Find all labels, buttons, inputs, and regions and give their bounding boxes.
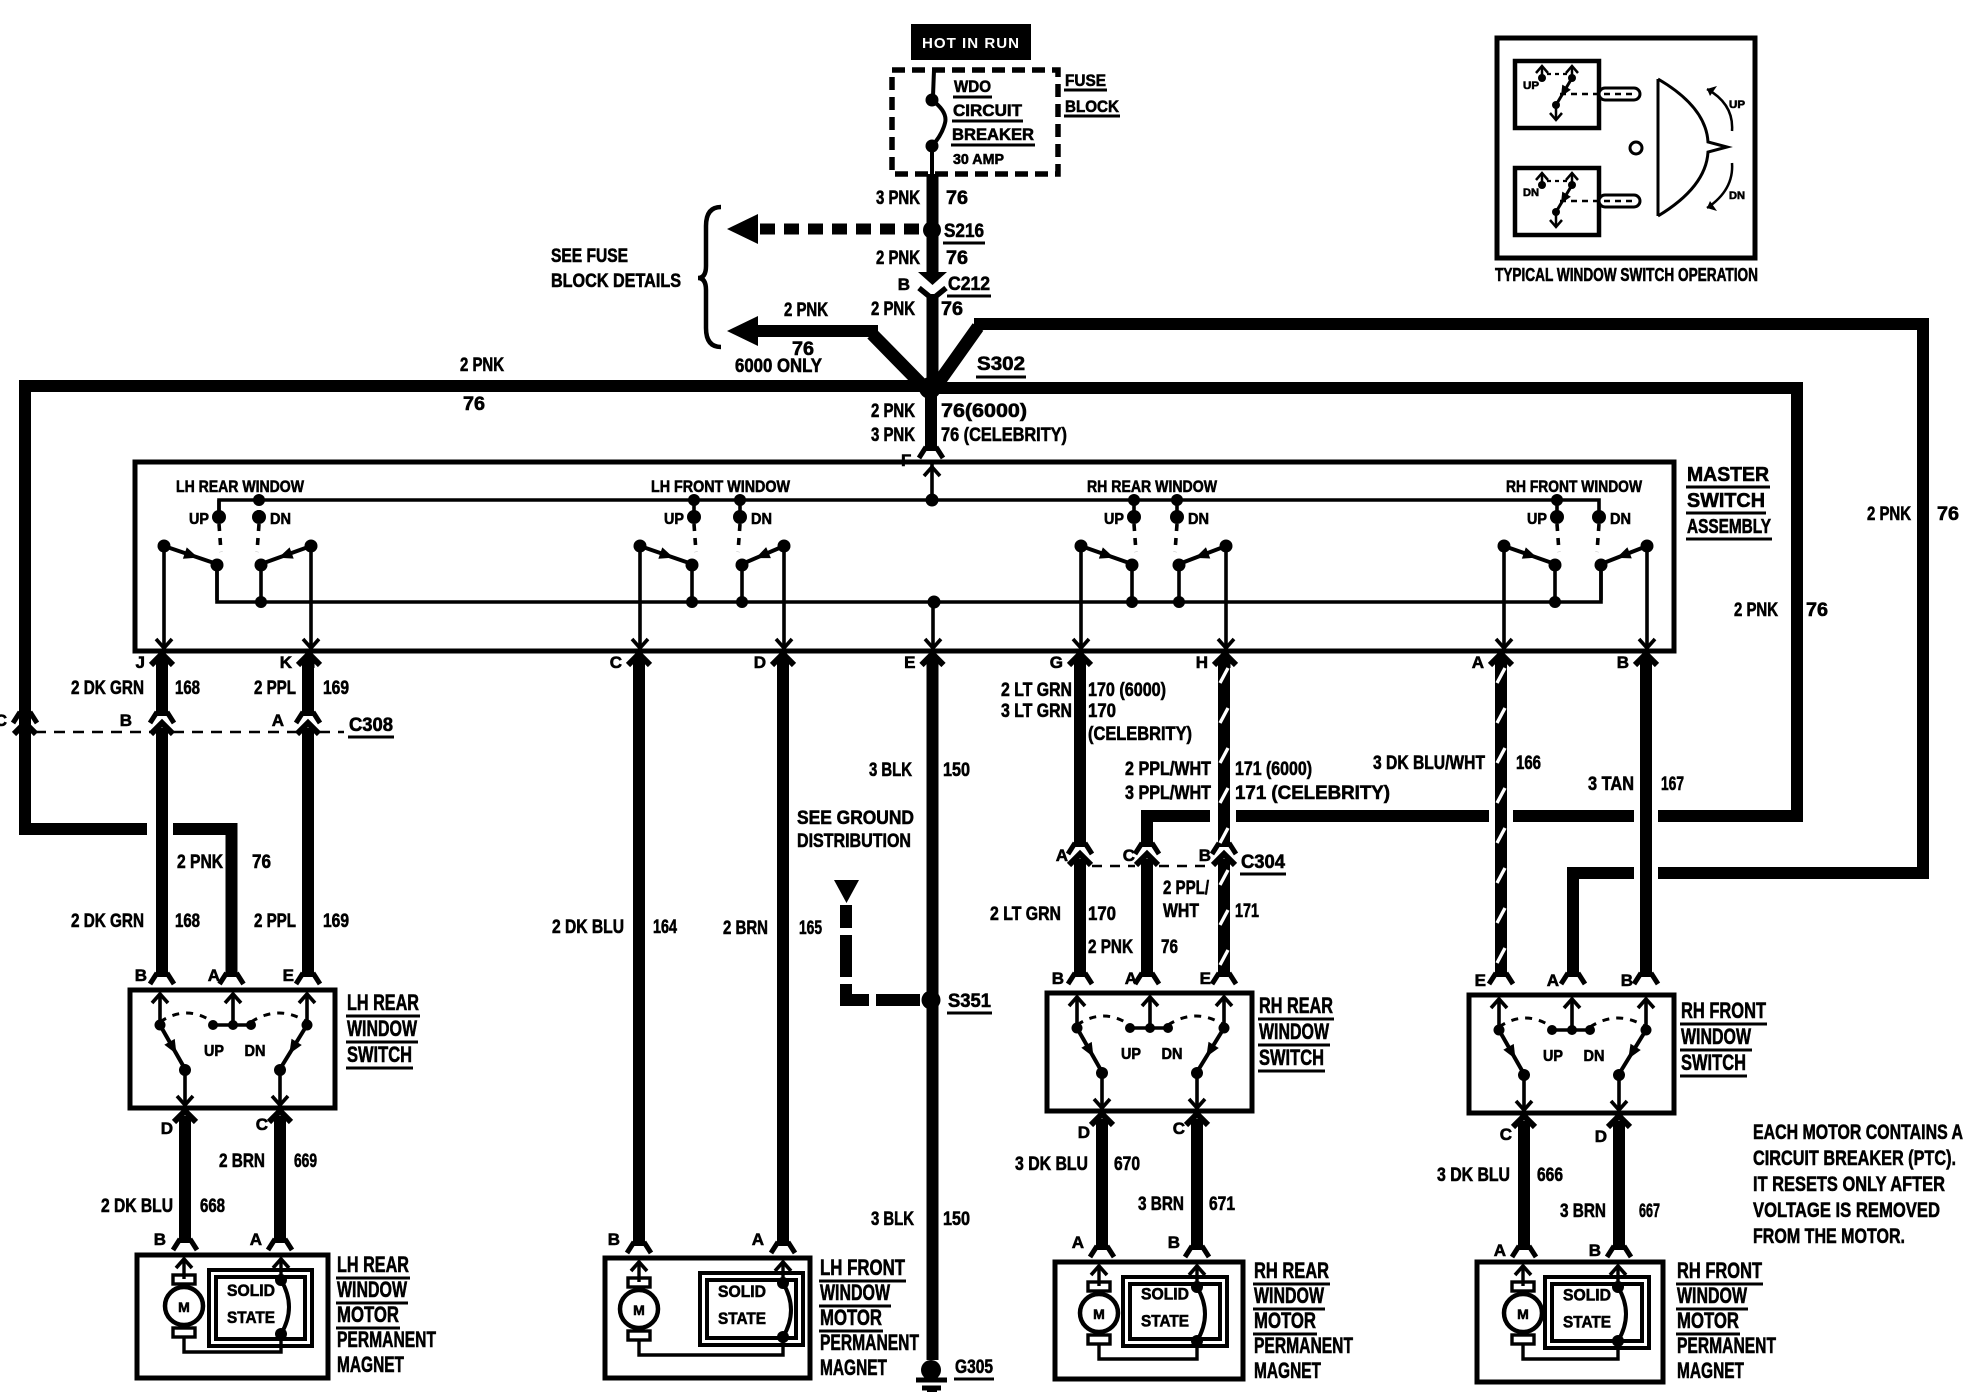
svg-text:E: E	[1475, 971, 1486, 990]
svg-text:2 LT GRN: 2 LT GRN	[1001, 680, 1072, 701]
svg-text:170 (6000): 170 (6000)	[1088, 680, 1166, 701]
svg-text:WINDOW: WINDOW	[1677, 1283, 1747, 1308]
svg-text:3 PPL/WHT: 3 PPL/WHT	[1125, 783, 1211, 804]
connector C308	[0, 711, 394, 737]
svg-text:76(6000): 76(6000)	[941, 401, 1027, 422]
wire 2 DK BLU 164	[552, 658, 677, 1253]
svg-text:76 (CELEBRITY): 76 (CELEBRITY)	[941, 425, 1067, 446]
wire 3 BRN 667	[1560, 1121, 1660, 1260]
svg-text:FROM THE MOTOR.: FROM THE MOTOR.	[1753, 1224, 1905, 1248]
svg-text:A: A	[1494, 1241, 1506, 1260]
svg-text:C: C	[1123, 846, 1135, 865]
svg-text:169: 169	[323, 911, 349, 932]
wire 3 DK BLU 666	[1437, 1121, 1563, 1260]
wire 3 PNK 76 breaker to S216	[876, 174, 968, 224]
wire 2 PNK feed to RH rear switch	[930, 388, 1797, 854]
svg-text:EACH MOTOR CONTAINS A: EACH MOTOR CONTAINS A	[1753, 1120, 1963, 1144]
svg-text:CIRCUIT BREAKER (PTC).: CIRCUIT BREAKER (PTC).	[1753, 1146, 1956, 1170]
svg-text:3 TAN: 3 TAN	[1588, 774, 1634, 795]
svg-text:RH REAR WINDOW: RH REAR WINDOW	[1087, 477, 1218, 496]
svg-text:170: 170	[1088, 904, 1116, 925]
svg-text:BLOCK DETAILS: BLOCK DETAILS	[551, 271, 681, 292]
svg-text:STATE: STATE	[1141, 1312, 1189, 1331]
svg-text:76: 76	[946, 188, 968, 209]
LH front window motor internal circuit breaker	[775, 1262, 791, 1343]
svg-text:C308: C308	[349, 715, 393, 736]
svg-text:3 LT GRN: 3 LT GRN	[1001, 701, 1072, 722]
LH rear window motor box	[137, 1255, 328, 1378]
wire 2 DK GRN 168 lower	[71, 728, 200, 984]
svg-text:MOTOR: MOTOR	[337, 1302, 399, 1327]
svg-text:171: 171	[1235, 901, 1259, 922]
wire PPL/WHT 171 lower (hatched)	[1163, 859, 1259, 984]
labels 2 PNK 76 right feed 2	[1867, 504, 1959, 525]
svg-text:STATE: STATE	[1563, 1313, 1611, 1332]
svg-text:WHT: WHT	[1163, 901, 1199, 922]
svg-text:666: 666	[1537, 1165, 1563, 1186]
node S351	[922, 991, 993, 1014]
svg-text:2 PPL/: 2 PPL/	[1163, 878, 1210, 899]
wire 2 LT GRN 170 upper	[1001, 658, 1192, 854]
LH REAR WINDOW SWITCH label	[346, 990, 420, 1068]
connector C212	[898, 272, 991, 299]
wire 2 DK BLU 668	[101, 1116, 225, 1250]
svg-text:2 PPL: 2 PPL	[254, 678, 296, 699]
svg-text:FUSE: FUSE	[1065, 71, 1106, 90]
connector C304	[1056, 846, 1286, 874]
svg-text:DN: DN	[1584, 1048, 1605, 1065]
svg-text:169: 169	[323, 678, 349, 699]
RH rear switch bottom terminals D C	[1078, 1114, 1208, 1142]
svg-text:CIRCUIT: CIRCUIT	[953, 101, 1023, 120]
LH rear window motor return wire	[184, 1334, 281, 1352]
master terminal J	[136, 653, 173, 672]
svg-text:UP: UP	[1121, 1046, 1141, 1063]
svg-text:LH FRONT: LH FRONT	[820, 1255, 905, 1280]
svg-text:LH FRONT WINDOW: LH FRONT WINDOW	[651, 477, 791, 496]
svg-text:2 LT GRN: 2 LT GRN	[990, 904, 1061, 925]
wire 3 BLK 150 upper	[869, 658, 970, 1000]
LH rear switch bottom terminals D C	[161, 1111, 291, 1138]
labels 2 PNK 76 right feed 1	[1734, 600, 1828, 621]
wire 3 BRN 671	[1138, 1119, 1235, 1257]
svg-text:667: 667	[1639, 1201, 1660, 1222]
svg-text:DN: DN	[1523, 187, 1539, 199]
svg-text:76: 76	[1806, 600, 1828, 621]
svg-text:A: A	[1547, 971, 1559, 990]
svg-text:168: 168	[175, 911, 200, 932]
wire 2 DK GRN 168 upper	[71, 658, 200, 723]
svg-text:WINDOW: WINDOW	[1259, 1019, 1329, 1044]
svg-text:DN: DN	[1188, 511, 1209, 528]
RH rear window motor motor M	[1080, 1266, 1118, 1344]
LH rear window motor solid state module	[209, 1270, 312, 1346]
svg-text:150: 150	[943, 760, 970, 781]
svg-text:2 BRN: 2 BRN	[723, 918, 768, 939]
svg-text:SWITCH: SWITCH	[1259, 1045, 1324, 1070]
wire 2 BRN 669	[219, 1116, 317, 1250]
svg-text:M: M	[1517, 1306, 1529, 1322]
svg-text:76: 76	[946, 248, 968, 269]
master switch assembly box	[135, 462, 1674, 651]
svg-text:2 DK GRN: 2 DK GRN	[71, 678, 144, 699]
wire PPL/WHT 171 upper (hatched)	[1125, 658, 1390, 854]
wire 2 BRN 165	[723, 658, 822, 1253]
svg-text:2 DK BLU: 2 DK BLU	[101, 1196, 173, 1217]
svg-text:RH REAR: RH REAR	[1254, 1258, 1329, 1283]
svg-text:WINDOW: WINDOW	[347, 1016, 417, 1041]
master terminal K	[280, 653, 320, 672]
svg-text:PERMANENT: PERMANENT	[1254, 1333, 1353, 1358]
svg-text:UP: UP	[1729, 99, 1745, 111]
svg-text:170: 170	[1088, 701, 1116, 722]
svg-text:MAGNET: MAGNET	[820, 1355, 887, 1380]
svg-text:3 DK BLU: 3 DK BLU	[1437, 1165, 1510, 1186]
RH front window motor box	[1477, 1262, 1663, 1382]
svg-text:2 PNK: 2 PNK	[871, 401, 915, 422]
svg-text:3 BLK: 3 BLK	[871, 1209, 914, 1230]
svg-text:76: 76	[252, 852, 271, 873]
RH front window motor motor M	[1504, 1266, 1542, 1344]
circuit breaker WDO 30 AMP	[926, 70, 1036, 174]
svg-text:J: J	[136, 653, 145, 672]
inset switch element DN	[1515, 168, 1640, 235]
svg-text:670: 670	[1114, 1154, 1140, 1175]
master lower bus junctions	[255, 596, 1561, 609]
wire 2 PNK 76 lower (C304 C)	[1088, 859, 1178, 984]
master switch section RH FRONT WINDOW	[1496, 477, 1655, 648]
svg-text:C: C	[610, 653, 622, 672]
svg-text:SOLID: SOLID	[1141, 1285, 1189, 1304]
LH front window motor return wire	[639, 1337, 783, 1355]
svg-text:K: K	[280, 653, 293, 672]
svg-text:76: 76	[463, 394, 485, 415]
inset switch element UP	[1515, 61, 1640, 128]
svg-text:DISTRIBUTION: DISTRIBUTION	[797, 831, 911, 852]
node S216	[923, 221, 985, 243]
svg-text:WINDOW: WINDOW	[820, 1280, 890, 1305]
svg-text:B: B	[1168, 1233, 1180, 1252]
LH front window motor box	[605, 1258, 810, 1378]
terminal F entry arrow	[924, 462, 940, 500]
svg-text:C304: C304	[1241, 852, 1285, 873]
svg-text:RH FRONT: RH FRONT	[1677, 1258, 1762, 1283]
svg-text:B: B	[135, 966, 147, 985]
svg-text:WINDOW: WINDOW	[337, 1277, 407, 1302]
wire 2 PNK feed to RH front switch	[1561, 873, 1929, 984]
svg-text:3 DK BLU: 3 DK BLU	[1015, 1154, 1088, 1175]
C308 left half on feed wire	[13, 712, 37, 737]
LH REAR WINDOW SWITCH contacts	[152, 994, 315, 1105]
RH rear window motor box	[1055, 1262, 1243, 1379]
RH FRONT WINDOW SWITCH label	[1680, 998, 1767, 1076]
power source label HOT IN RUN	[911, 24, 1031, 60]
svg-text:171 (CELEBRITY): 171 (CELEBRITY)	[1235, 783, 1390, 804]
svg-text:SOLID: SOLID	[1563, 1286, 1611, 1305]
svg-text:2 PNK: 2 PNK	[177, 852, 223, 873]
wire 2 PNK 76 C212 to S302	[871, 294, 963, 384]
master terminal D	[754, 653, 794, 672]
solid arrow 2 PNK 76 6000 ONLY	[727, 300, 926, 389]
svg-text:76: 76	[1161, 937, 1178, 958]
master terminal C	[610, 653, 650, 672]
svg-text:165: 165	[799, 918, 822, 939]
svg-text:WINDOW: WINDOW	[1681, 1024, 1751, 1049]
svg-text:2 PNK: 2 PNK	[871, 299, 915, 320]
svg-text:DN: DN	[270, 511, 291, 528]
svg-text:SOLID: SOLID	[227, 1281, 275, 1300]
svg-text:E: E	[904, 653, 915, 672]
svg-text:G305: G305	[955, 1357, 993, 1378]
wire 2 LT GRN 170 lower	[990, 859, 1116, 984]
svg-text:IT RESETS ONLY AFTER: IT RESETS ONLY AFTER	[1753, 1172, 1945, 1196]
svg-text:B: B	[1052, 969, 1064, 988]
svg-text:6000 ONLY: 6000 ONLY	[735, 356, 822, 377]
svg-text:S351: S351	[948, 991, 991, 1012]
ground G305	[916, 1357, 994, 1392]
fuse block title	[1064, 71, 1120, 116]
LH rear window motor motor M	[165, 1259, 203, 1337]
wire 3 DK BLU/WHT 166 (hatched)	[1373, 658, 1541, 984]
svg-text:671: 671	[1209, 1194, 1235, 1215]
C308 caps	[151, 723, 319, 737]
master terminal G	[1050, 653, 1091, 672]
svg-text:STATE: STATE	[227, 1308, 275, 1327]
svg-text:RH FRONT WINDOW: RH FRONT WINDOW	[1506, 477, 1643, 496]
svg-text:HOT IN RUN: HOT IN RUN	[922, 35, 1020, 52]
svg-text:DN: DN	[751, 511, 772, 528]
svg-text:MAGNET: MAGNET	[1677, 1358, 1744, 1383]
LH rear window motor label	[336, 1252, 436, 1377]
svg-text:UP: UP	[204, 1043, 224, 1060]
RH FRONT WINDOW SWITCH terminals BAE	[1475, 971, 1633, 990]
svg-text:PERMANENT: PERMANENT	[337, 1327, 436, 1352]
RH rear window motor label	[1253, 1258, 1353, 1383]
RH FRONT WINDOW SWITCH box	[1469, 995, 1674, 1113]
svg-text:76: 76	[941, 299, 963, 320]
node S302	[919, 354, 1026, 399]
svg-text:C: C	[1173, 1119, 1185, 1138]
svg-text:SEE GROUND: SEE GROUND	[797, 808, 914, 829]
wire 3 TAN 167	[1588, 658, 1684, 984]
svg-text:C212: C212	[948, 274, 990, 295]
svg-text:B: B	[120, 711, 132, 730]
master switch section RH REAR WINDOW	[1073, 477, 1234, 648]
RH REAR WINDOW SWITCH contacts	[1069, 997, 1232, 1108]
master switch assembly title	[1686, 464, 1772, 539]
svg-text:167: 167	[1661, 774, 1684, 795]
svg-text:DN: DN	[1729, 190, 1745, 202]
svg-text:G: G	[1050, 653, 1063, 672]
svg-text:STATE: STATE	[718, 1309, 766, 1328]
dashed ground distribution stub	[834, 880, 920, 1000]
RH REAR WINDOW SWITCH terminals BAE	[1052, 969, 1211, 988]
svg-text:2 PNK: 2 PNK	[1867, 504, 1911, 525]
svg-text:DN: DN	[245, 1043, 266, 1060]
inset rocker knob	[1630, 79, 1727, 216]
wire 2 PNK 76 S216 to C212	[876, 236, 968, 272]
svg-text:2 BRN: 2 BRN	[219, 1151, 265, 1172]
svg-text:(CELEBRITY): (CELEBRITY)	[1088, 724, 1192, 745]
svg-text:DN: DN	[1162, 1046, 1183, 1063]
inset title	[1495, 265, 1758, 285]
RH rear window motor solid state module	[1123, 1277, 1227, 1346]
svg-text:VOLTAGE IS REMOVED: VOLTAGE IS REMOVED	[1753, 1198, 1940, 1222]
wire 2 PNK 76 feed to LH rear switch	[173, 829, 271, 984]
svg-text:RH FRONT: RH FRONT	[1681, 998, 1766, 1023]
RH REAR WINDOW SWITCH box	[1047, 993, 1252, 1111]
svg-text:A: A	[1056, 846, 1068, 865]
svg-text:150: 150	[943, 1209, 970, 1230]
svg-text:2 DK GRN: 2 DK GRN	[71, 911, 144, 932]
svg-text:3 BRN: 3 BRN	[1138, 1194, 1184, 1215]
LH REAR WINDOW SWITCH box	[130, 990, 335, 1108]
svg-text:76: 76	[1937, 504, 1959, 525]
svg-text:2 PPL: 2 PPL	[254, 911, 296, 932]
wire 2 PPL 169 upper	[254, 658, 349, 723]
svg-text:MASTER: MASTER	[1687, 464, 1770, 486]
svg-text:A: A	[272, 711, 284, 730]
svg-text:MOTOR: MOTOR	[1677, 1308, 1739, 1333]
svg-text:A: A	[1472, 653, 1484, 672]
RH rear window motor internal circuit breaker	[1189, 1266, 1205, 1347]
svg-text:MAGNET: MAGNET	[1254, 1358, 1321, 1383]
master terminal E	[904, 653, 943, 672]
svg-text:WDO: WDO	[954, 77, 991, 96]
svg-text:UP: UP	[1543, 1048, 1563, 1065]
svg-text:UP: UP	[1527, 511, 1547, 528]
svg-text:3 BRN: 3 BRN	[1560, 1201, 1606, 1222]
svg-text:SEE FUSE: SEE FUSE	[551, 246, 628, 267]
master top bus junctions	[253, 494, 1563, 507]
note SEE FUSE BLOCK DETAILS	[551, 246, 681, 292]
svg-text:LH REAR: LH REAR	[347, 990, 419, 1015]
svg-text:TYPICAL WINDOW SWITCH OPERATIO: TYPICAL WINDOW SWITCH OPERATION	[1495, 265, 1758, 285]
svg-text:2 PNK: 2 PNK	[784, 300, 828, 321]
svg-text:BLOCK: BLOCK	[1065, 97, 1120, 116]
inset typical window switch operation box	[1497, 38, 1755, 258]
svg-text:B: B	[898, 275, 910, 294]
svg-text:B: B	[1617, 653, 1629, 672]
svg-text:A: A	[1072, 1233, 1084, 1252]
master switch section LH FRONT WINDOW	[632, 477, 792, 648]
svg-text:E: E	[283, 966, 294, 985]
svg-text:C: C	[0, 711, 7, 730]
LH front window motor solid state module	[700, 1273, 803, 1345]
terminal E drop inside master box	[925, 602, 941, 648]
svg-text:RH REAR: RH REAR	[1259, 993, 1333, 1018]
LH REAR WINDOW SWITCH terminals BAE	[135, 966, 294, 985]
svg-text:S216: S216	[944, 221, 984, 242]
svg-text:UP: UP	[1104, 511, 1124, 528]
svg-text:MOTOR: MOTOR	[820, 1305, 882, 1330]
master lower bus	[217, 566, 1601, 602]
wire 2 PNK 76 S302 to F	[871, 388, 1067, 470]
RH rear window motor return wire	[1099, 1341, 1197, 1359]
svg-text:669: 669	[294, 1151, 317, 1172]
RH front window motor solid state module	[1545, 1277, 1649, 1348]
svg-text:B: B	[1589, 1241, 1601, 1260]
master terminal H	[1196, 653, 1236, 672]
wire 2 PPL 169 lower	[254, 728, 349, 984]
wire 2 PNK 76 left bus from S302	[25, 355, 930, 829]
LH front window motor motor M	[620, 1262, 658, 1340]
svg-text:D: D	[161, 1119, 173, 1138]
dashed arrow to fuse block details	[727, 214, 921, 244]
svg-text:LH REAR: LH REAR	[337, 1252, 409, 1277]
svg-text:UP: UP	[189, 511, 209, 528]
svg-text:30 AMP: 30 AMP	[953, 151, 1004, 168]
wire 3 DK BLU 670	[1015, 1119, 1140, 1257]
svg-text:SWITCH: SWITCH	[1681, 1050, 1746, 1075]
svg-text:B: B	[154, 1230, 166, 1249]
svg-text:UP: UP	[1523, 80, 1539, 92]
svg-text:M: M	[633, 1302, 645, 1318]
svg-text:3 BLK: 3 BLK	[869, 760, 912, 781]
svg-text:3 PNK: 3 PNK	[876, 188, 920, 209]
svg-text:PERMANENT: PERMANENT	[820, 1330, 919, 1355]
RH REAR WINDOW SWITCH label	[1258, 993, 1334, 1071]
wire 2 PNK to right top	[934, 324, 1923, 873]
svg-text:B: B	[1199, 846, 1211, 865]
svg-text:2 PNK: 2 PNK	[1734, 600, 1778, 621]
svg-text:S302: S302	[977, 354, 1025, 375]
RH front window motor internal circuit breaker	[1610, 1266, 1626, 1347]
svg-text:2 PNK: 2 PNK	[460, 355, 504, 376]
RH front window motor label	[1676, 1258, 1776, 1383]
svg-text:2 DK BLU: 2 DK BLU	[552, 917, 624, 938]
brace for fuse block details	[698, 207, 721, 347]
master switch section LH REAR WINDOW	[156, 477, 319, 648]
svg-text:A: A	[1125, 969, 1137, 988]
master top bus	[219, 500, 1599, 517]
master terminal A	[1472, 653, 1512, 672]
svg-text:SWITCH: SWITCH	[347, 1042, 412, 1067]
LH rear window motor internal circuit breaker	[273, 1259, 289, 1340]
svg-text:SWITCH: SWITCH	[1687, 490, 1765, 512]
svg-text:164: 164	[653, 917, 677, 938]
inset rotation arrows	[1707, 86, 1745, 211]
master terminal B	[1617, 653, 1657, 672]
svg-text:BREAKER: BREAKER	[952, 125, 1034, 144]
svg-text:DN: DN	[1610, 511, 1631, 528]
svg-text:668: 668	[200, 1196, 225, 1217]
note each motor contains breaker	[1753, 1120, 1963, 1248]
svg-text:A: A	[250, 1230, 262, 1249]
svg-text:M: M	[1093, 1306, 1105, 1322]
svg-text:171 (6000): 171 (6000)	[1235, 759, 1312, 780]
RH front switch bottom terminals C D	[1500, 1116, 1630, 1146]
RH FRONT WINDOW SWITCH contacts	[1491, 999, 1654, 1110]
RH front window motor return wire	[1523, 1341, 1618, 1359]
svg-text:A: A	[208, 966, 220, 985]
svg-text:A: A	[752, 1230, 764, 1249]
svg-text:166: 166	[1516, 753, 1541, 774]
svg-text:D: D	[1595, 1127, 1607, 1146]
svg-text:LH REAR WINDOW: LH REAR WINDOW	[176, 477, 305, 496]
svg-text:ASSEMBLY: ASSEMBLY	[1687, 516, 1771, 538]
LH front window motor label	[819, 1255, 919, 1380]
note SEE GROUND DISTRIBUTION	[797, 808, 914, 852]
svg-text:M: M	[178, 1299, 190, 1315]
svg-text:PERMANENT: PERMANENT	[1677, 1333, 1776, 1358]
svg-text:2 PPL/WHT: 2 PPL/WHT	[1125, 759, 1211, 780]
svg-text:H: H	[1196, 653, 1208, 672]
svg-text:2 PNK: 2 PNK	[876, 248, 920, 269]
svg-text:168: 168	[175, 678, 200, 699]
wire 3 BLK 150 lower	[871, 1000, 970, 1360]
svg-text:2 PNK: 2 PNK	[1088, 937, 1133, 958]
